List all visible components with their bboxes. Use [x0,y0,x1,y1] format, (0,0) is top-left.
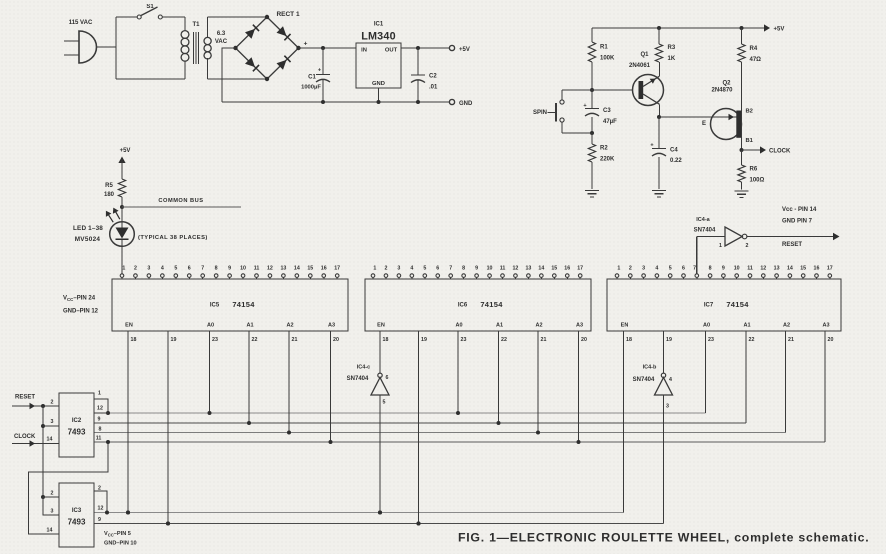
svg-text:0.22: 0.22 [670,158,682,164]
svg-text:7: 7 [449,266,452,272]
svg-text:E: E [702,121,706,127]
svg-text:SN7404: SN7404 [347,376,369,382]
svg-text:10: 10 [734,266,740,272]
svg-text:17: 17 [827,266,833,272]
svg-text:GND: GND [372,81,385,87]
svg-text:11: 11 [96,436,102,442]
svg-text:22: 22 [749,337,755,343]
svg-text:4: 4 [669,377,672,383]
svg-text:74154: 74154 [726,300,749,309]
svg-text:A2: A2 [783,323,790,329]
svg-text:16: 16 [564,266,570,272]
svg-text:C4: C4 [670,148,678,154]
svg-text:RESET: RESET [782,242,802,248]
svg-text:A0: A0 [207,323,214,329]
svg-text:A2: A2 [535,323,542,329]
svg-text:11: 11 [500,266,506,272]
svg-text:2N4061: 2N4061 [629,63,651,69]
svg-text:15: 15 [551,266,557,272]
svg-text:A3: A3 [328,323,335,329]
svg-text:23: 23 [708,337,714,343]
svg-text:1K: 1K [668,56,676,62]
svg-text:6.3: 6.3 [217,31,226,37]
svg-text:2: 2 [629,266,632,272]
svg-text:2: 2 [51,491,54,497]
svg-text:20: 20 [581,337,587,343]
svg-text:47µF: 47µF [603,119,617,125]
svg-text:6: 6 [188,266,191,272]
svg-text:A1: A1 [743,323,750,329]
svg-text:IC7: IC7 [704,303,714,309]
svg-text:11: 11 [747,266,753,272]
svg-text:OUT: OUT [385,48,398,54]
svg-text:13: 13 [774,266,780,272]
svg-text:20: 20 [828,337,834,343]
svg-text:8: 8 [709,266,712,272]
svg-text:R3: R3 [668,45,676,51]
svg-text:R2: R2 [600,146,608,152]
svg-text:12: 12 [512,266,518,272]
svg-text:2: 2 [746,243,749,249]
svg-text:EN: EN [125,323,133,329]
svg-text:3: 3 [147,266,150,272]
svg-text:A0: A0 [703,323,710,329]
svg-text:6: 6 [386,375,389,381]
svg-text:3: 3 [397,266,400,272]
svg-text:8: 8 [462,266,465,272]
svg-text:19: 19 [666,337,672,343]
svg-text:23: 23 [212,337,218,343]
svg-text:+: + [583,103,586,109]
svg-text:RESET: RESET [15,395,35,401]
svg-text:14: 14 [787,266,793,272]
svg-text:IC6: IC6 [458,303,468,309]
svg-text:9: 9 [228,266,231,272]
svg-text:16: 16 [814,266,820,272]
svg-text:R4: R4 [750,46,758,52]
svg-text:IC4-b: IC4-b [643,365,657,371]
svg-text:8: 8 [99,427,102,433]
svg-text:IC4-a: IC4-a [696,217,710,223]
svg-text:12: 12 [267,266,273,272]
svg-text:IC5: IC5 [210,303,220,309]
svg-text:18: 18 [383,337,389,343]
svg-text:5: 5 [174,266,177,272]
svg-text:IC4-c: IC4-c [357,365,370,371]
svg-text:+5V: +5V [120,148,131,154]
svg-text:4: 4 [655,266,658,272]
svg-text:18: 18 [131,337,137,343]
svg-text:C1: C1 [308,75,316,81]
svg-text:VCC–PIN 5: VCC–PIN 5 [104,531,131,537]
svg-text:7493: 7493 [68,518,86,527]
svg-text:A3: A3 [822,323,829,329]
svg-text:12: 12 [98,506,104,512]
svg-text:5: 5 [423,266,426,272]
svg-text:100K: 100K [600,56,615,62]
svg-text:47Ω: 47Ω [750,57,762,63]
svg-text:+: + [318,68,321,74]
svg-text:8: 8 [215,266,218,272]
svg-text:11: 11 [254,266,260,272]
svg-text:T1: T1 [192,22,200,28]
svg-text:Q2: Q2 [722,81,731,87]
svg-text:74154: 74154 [480,300,503,309]
svg-text:EN: EN [621,323,629,329]
svg-text:12: 12 [97,406,103,412]
svg-text:14: 14 [47,528,53,534]
svg-text:21: 21 [788,337,794,343]
svg-text:14: 14 [294,266,300,272]
svg-text:5: 5 [383,400,386,406]
svg-text:+: + [650,143,653,149]
svg-text:17: 17 [334,266,340,272]
svg-text:21: 21 [541,337,547,343]
svg-text:10: 10 [240,266,246,272]
svg-text:GND PIN 7: GND PIN 7 [782,219,813,225]
svg-text:.01: .01 [429,85,438,91]
svg-text:GND–PIN 10: GND–PIN 10 [104,541,137,547]
svg-text:+: + [304,41,308,48]
svg-text:A1: A1 [246,323,253,329]
svg-text:(TYPICAL 38 PLACES): (TYPICAL 38 PLACES) [138,235,208,241]
svg-text:IN: IN [361,48,367,54]
svg-text:R5: R5 [105,183,113,189]
svg-text:5: 5 [669,266,672,272]
svg-text:7: 7 [693,266,696,272]
svg-text:R1: R1 [600,45,608,51]
svg-text:GND: GND [459,101,473,107]
svg-text:FIG. 1—ELECTRONIC ROULETTE WHE: FIG. 1—ELECTRONIC ROULETTE WHEEL, comple… [458,531,869,545]
svg-text:1000µF: 1000µF [301,85,321,91]
svg-text:RECT 1: RECT 1 [276,11,300,18]
svg-text:9: 9 [98,417,101,423]
svg-text:7: 7 [201,266,204,272]
svg-text:+5V: +5V [459,47,470,53]
svg-text:12: 12 [760,266,766,272]
svg-text:+5V: +5V [774,27,785,33]
svg-text:3: 3 [51,509,54,515]
svg-text:CLOCK: CLOCK [14,434,36,440]
svg-text:100Ω: 100Ω [750,178,765,184]
svg-text:17: 17 [577,266,583,272]
svg-text:2: 2 [134,266,137,272]
svg-text:9: 9 [722,266,725,272]
svg-text:VAC: VAC [215,39,228,45]
svg-text:13: 13 [525,266,531,272]
svg-text:22: 22 [501,337,507,343]
svg-text:13: 13 [280,266,286,272]
svg-text:74154: 74154 [232,300,255,309]
svg-text:3: 3 [51,419,54,425]
svg-text:15: 15 [307,266,313,272]
svg-text:B2: B2 [746,109,753,115]
svg-text:1: 1 [373,266,376,272]
svg-text:EN: EN [377,323,385,329]
svg-text:19: 19 [421,337,427,343]
svg-text:Q1: Q1 [640,52,649,58]
svg-text:6: 6 [682,266,685,272]
svg-text:2: 2 [384,266,387,272]
svg-text:14: 14 [538,266,544,272]
svg-text:16: 16 [321,266,327,272]
svg-text:B1: B1 [746,138,754,144]
svg-text:A1: A1 [496,323,503,329]
svg-text:21: 21 [292,337,298,343]
svg-text:LM340: LM340 [361,31,396,43]
svg-text:IC3: IC3 [72,508,82,514]
svg-text:1: 1 [719,243,722,249]
svg-text:115 VAC: 115 VAC [69,20,93,26]
svg-text:GND–PIN 12: GND–PIN 12 [63,309,99,315]
svg-text:4: 4 [161,266,164,272]
svg-text:VCC–PIN 24: VCC–PIN 24 [63,296,96,303]
svg-text:SN7404: SN7404 [633,377,655,383]
svg-text:COMMON BUS: COMMON BUS [158,198,203,204]
svg-text:CLOCK: CLOCK [769,149,791,155]
svg-text:LED 1–38: LED 1–38 [73,225,103,232]
svg-text:Vcc - PIN 14: Vcc - PIN 14 [782,207,817,213]
svg-text:180: 180 [104,192,115,198]
svg-text:10: 10 [487,266,493,272]
svg-text:MV5024: MV5024 [75,236,101,243]
svg-text:4: 4 [410,266,413,272]
svg-text:R6: R6 [750,167,758,173]
svg-text:SN7404: SN7404 [694,228,716,234]
svg-text:220K: 220K [600,157,615,163]
svg-text:2N4870: 2N4870 [711,88,733,94]
svg-text:1: 1 [122,266,125,272]
svg-text:A2: A2 [286,323,293,329]
svg-text:1: 1 [617,266,620,272]
svg-text:1: 1 [98,391,101,397]
svg-text:3: 3 [666,404,669,410]
svg-text:18: 18 [626,337,632,343]
svg-text:14: 14 [47,437,53,443]
svg-text:S1: S1 [146,4,154,10]
svg-text:22: 22 [252,337,258,343]
svg-text:9: 9 [98,517,101,523]
svg-text:9: 9 [475,266,478,272]
svg-text:IC1: IC1 [374,22,384,28]
svg-text:IC2: IC2 [72,418,82,424]
svg-text:23: 23 [461,337,467,343]
svg-text:7493: 7493 [68,428,86,437]
svg-text:20: 20 [333,337,339,343]
svg-text:6: 6 [436,266,439,272]
svg-text:A3: A3 [576,323,583,329]
svg-text:A0: A0 [455,323,462,329]
svg-text:3: 3 [642,266,645,272]
svg-text:C2: C2 [429,74,437,80]
svg-text:SPIN: SPIN [533,110,547,116]
svg-text:C3: C3 [603,108,611,114]
svg-text:19: 19 [171,337,177,343]
svg-text:2: 2 [51,400,54,406]
svg-text:15: 15 [800,266,806,272]
